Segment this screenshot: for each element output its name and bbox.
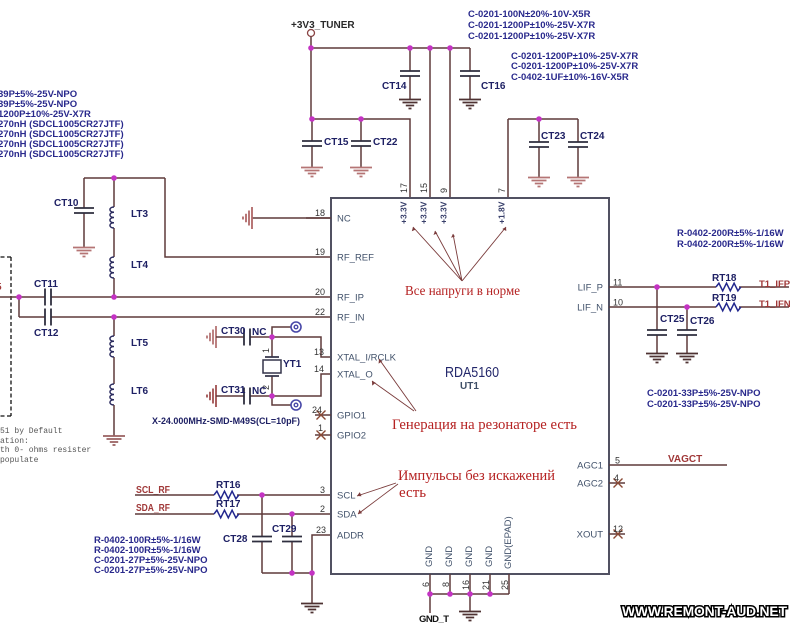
svg-text:+3.3V: +3.3V	[399, 201, 409, 224]
wire RF_IN	[19, 297, 331, 317]
wire XTAL_O node	[272, 374, 331, 405]
svg-text:LT4: LT4	[131, 260, 148, 271]
svg-text:CT10: CT10	[54, 198, 79, 209]
svg-text:CT25: CT25	[660, 314, 685, 325]
svg-text:CT24: CT24	[580, 131, 605, 142]
svg-text:CT16: CT16	[481, 81, 506, 92]
junction gnd bus pin8	[447, 591, 453, 597]
capacitor CT10	[83, 178, 85, 247]
svg-text:23: 23	[316, 525, 326, 535]
svg-text:VAGCT: VAGCT	[668, 454, 702, 465]
wire pin8 drop	[449, 574, 451, 594]
junction LT4/LT5 on RF_IP	[111, 294, 117, 300]
svg-text:RT18: RT18	[712, 273, 737, 284]
svg-text:GND(EPAD): GND(EPAD)	[503, 516, 514, 569]
svg-text:GPIO2: GPIO2	[337, 431, 366, 442]
junction gnd bus pin16	[467, 591, 473, 597]
svg-text:RT16: RT16	[216, 480, 241, 491]
wire pin9	[449, 48, 451, 198]
capacitor CT30	[216, 336, 272, 338]
svg-text:3: 3	[320, 485, 325, 495]
svg-text:+3.3V: +3.3V	[419, 201, 429, 224]
svg-text:T1_IFN: T1_IFN	[759, 299, 791, 310]
leader lines to +3.3V pins	[413, 227, 506, 281]
SECTION: red annotations	[357, 227, 577, 514]
junction CT25/LIF_P	[654, 284, 660, 290]
IC UT1 RDA5160 body	[331, 198, 609, 574]
svg-text:CT12: CT12	[34, 328, 59, 339]
junction CT29 bottom	[289, 570, 295, 576]
junction XTAL_O node	[269, 393, 275, 399]
ground CT14	[399, 100, 421, 109]
svg-text:R-0402-200R±5%-1/16W: R-0402-200R±5%-1/16W	[677, 228, 784, 239]
svg-text:ADDR: ADDR	[337, 531, 364, 542]
svg-text:XTAL_O: XTAL_O	[337, 370, 373, 381]
wire gnd bus	[430, 593, 509, 595]
capacitor CT28	[261, 495, 263, 573]
junction CT23 branch	[536, 116, 542, 122]
junction RF input	[16, 294, 22, 300]
svg-text:SCL: SCL	[337, 491, 355, 502]
SECTION: bottom gnd	[419, 574, 509, 625]
svg-text:C-0201-1200P±10%-25V-X7R: C-0201-1200P±10%-25V-X7R	[468, 31, 595, 42]
junction CT26/LIF_N	[684, 304, 690, 310]
svg-text:17: 17	[399, 183, 409, 193]
svg-text:2: 2	[320, 504, 325, 514]
ground pin18 NC sideways	[252, 217, 331, 219]
svg-text:ation:: ation:	[0, 437, 29, 446]
svg-text:WWW.REMONT-AUD.NET: WWW.REMONT-AUD.NET	[622, 603, 787, 619]
ground CT22	[350, 168, 372, 177]
svg-text:CT15: CT15	[324, 137, 349, 148]
svg-text:C-0201-100N±20%-10V-X5R: C-0201-100N±20%-10V-X5R	[468, 9, 591, 20]
svg-text:12: 12	[613, 524, 623, 534]
svg-text:XTAL_I/RCLK: XTAL_I/RCLK	[337, 353, 397, 364]
svg-text:X-24.000MHz-SMD-M49S(CL=10pF): X-24.000MHz-SMD-M49S(CL=10pF)	[152, 416, 300, 427]
svg-text:C-0201-1200P±10%-25V-X7R: C-0201-1200P±10%-25V-X7R	[511, 61, 638, 72]
junction CT14 branch	[407, 45, 413, 51]
svg-text:RDA5160: RDA5160	[445, 365, 499, 381]
svg-text:4: 4	[614, 473, 619, 483]
inductor LT6	[110, 384, 114, 405]
pin 12 stub XOUT	[609, 533, 625, 535]
wire AGC1 / VAGCT	[609, 464, 727, 466]
capacitor CT22	[360, 119, 362, 167]
wire SDA	[135, 513, 331, 515]
capacitor CT29	[291, 514, 293, 573]
svg-text:14: 14	[314, 364, 324, 374]
svg-text:RF_REF: RF_REF	[337, 253, 374, 264]
resistor RT16	[214, 491, 239, 499]
connector dashed box	[0, 257, 11, 416]
ground CT16	[459, 100, 481, 109]
svg-text:C-0201-33P±5%-25V-NPO: C-0201-33P±5%-25V-NPO	[647, 388, 760, 399]
svg-text:LIF_N: LIF_N	[577, 303, 603, 314]
svg-text:RT17: RT17	[216, 499, 241, 510]
svg-text:C-0201-33P±5%-25V-NPO: C-0201-33P±5%-25V-NPO	[647, 399, 760, 410]
capacitor CT11	[45, 289, 51, 306]
svg-text:11: 11	[613, 278, 622, 288]
wire pin6 drop	[429, 574, 431, 594]
svg-text:10: 10	[613, 298, 623, 308]
svg-text:LT3: LT3	[131, 209, 148, 220]
svg-text:T1_IFP: T1_IFP	[759, 279, 791, 290]
junction SCL/CT28	[259, 492, 265, 498]
wire SCL	[135, 494, 331, 496]
svg-text:R-0402-200R±5%-1/16W: R-0402-200R±5%-1/16W	[677, 239, 784, 250]
svg-text:+3.3V: +3.3V	[439, 201, 449, 224]
inductor LT5	[113, 317, 115, 384]
junction LT3 top	[111, 175, 117, 181]
svg-text:CT31: CT31	[221, 385, 246, 396]
junction pin9 branch	[447, 45, 453, 51]
ground CT26	[676, 354, 698, 363]
ground CT15	[301, 168, 323, 177]
svg-text:GND: GND	[484, 546, 495, 567]
svg-text:YT1: YT1	[283, 359, 302, 370]
svg-text:13: 13	[314, 347, 324, 357]
ground ADDR	[301, 604, 323, 613]
wire LT3 top rail	[84, 177, 165, 179]
wire CT15/CT22 rail	[311, 119, 410, 198]
svg-text:C-0402-1UF±10%-16V-X5R: C-0402-1UF±10%-16V-X5R	[511, 72, 629, 83]
inductor LT4	[113, 278, 115, 297]
pin 18 stub NC	[306, 217, 331, 219]
junction +3V3 rail left	[308, 45, 314, 51]
capacitor CT16	[469, 48, 471, 99]
svg-text:UT1: UT1	[460, 381, 479, 392]
svg-text:RT19: RT19	[712, 293, 737, 304]
junction pin15 branch	[427, 45, 433, 51]
terminal top	[291, 322, 301, 332]
svg-text:Все напруги в норме: Все напруги в норме	[405, 283, 520, 298]
ground pin16	[469, 594, 471, 611]
svg-text:1: 1	[261, 348, 271, 353]
SECTION: watermark	[622, 603, 787, 619]
wire ADDR	[312, 535, 331, 603]
resistor RT18	[716, 283, 741, 291]
wire CT23/CT24 rail	[508, 119, 578, 198]
svg-text:22: 22	[315, 307, 325, 317]
svg-text:Генерация на резонаторе есть: Генерация на резонаторе есть	[392, 417, 577, 433]
svg-text:LIF_P: LIF_P	[578, 283, 603, 294]
SECTION: crystal	[152, 322, 331, 427]
svg-text:CT22: CT22	[373, 137, 398, 148]
capacitor CT23	[538, 119, 540, 177]
wire gnd bus	[262, 572, 312, 574]
junction gnd bus pin6	[427, 591, 433, 597]
svg-text:9: 9	[439, 188, 449, 193]
svg-text:5: 5	[615, 456, 620, 466]
svg-text:AGC1: AGC1	[577, 461, 603, 472]
terminal bottom	[291, 400, 301, 410]
ground LT6	[103, 436, 125, 445]
wire pin25 drop	[508, 574, 510, 594]
ground CT24	[567, 178, 589, 187]
wire LIF_N	[609, 306, 789, 308]
wire top rail	[311, 47, 470, 49]
svg-text:RF_IN: RF_IN	[337, 313, 365, 324]
svg-text:CT26: CT26	[690, 316, 715, 327]
wire LIF_P	[609, 286, 789, 288]
SECTION: power rail	[291, 20, 605, 198]
junction CT15 rail	[309, 116, 315, 122]
svg-text:51 by Default: 51 by Default	[0, 427, 62, 436]
ground CT31 sideways	[207, 385, 216, 407]
svg-text:GND: GND	[464, 546, 475, 567]
svg-text:+3V3_TUNER: +3V3_TUNER	[291, 20, 355, 31]
svg-text:GND_T: GND_T	[419, 614, 449, 625]
wire pin16 drop	[469, 574, 471, 594]
leader lines to XTAL pins	[372, 359, 416, 411]
capacitor CT12	[45, 309, 51, 326]
ground CT23	[528, 178, 550, 187]
leader lines to SCL/SDA pins	[357, 483, 398, 514]
resistor RT19	[716, 303, 741, 311]
capacitor CT15	[311, 119, 313, 167]
svg-text:SDA: SDA	[337, 510, 357, 521]
SECTION: i2c	[135, 480, 331, 613]
SECTION: right side	[609, 273, 791, 465]
svg-text:XOUT: XOUT	[577, 530, 604, 541]
svg-text:CT30: CT30	[221, 326, 246, 337]
svg-text:C-0201-1200P±10%-25V-X7R: C-0201-1200P±10%-25V-X7R	[468, 20, 595, 31]
capacitor CT24	[577, 119, 579, 177]
svg-text:19: 19	[315, 247, 325, 257]
capacitor CT31	[216, 395, 272, 397]
svg-text:NC: NC	[337, 214, 351, 225]
svg-text:CT11: CT11	[34, 279, 58, 290]
svg-text:NC: NC	[252, 386, 266, 397]
svg-text:CT28: CT28	[223, 534, 248, 545]
svg-text:24: 24	[312, 405, 322, 415]
svg-text:Импульсы без искажений: Импульсы без искажений	[398, 468, 555, 484]
capacitor CT14	[409, 48, 411, 99]
svg-text:RF_IP: RF_IP	[337, 293, 364, 304]
inductor LT3	[113, 178, 115, 257]
SECTION: IC	[306, 183, 625, 590]
svg-text:th 0- ohms resister: th 0- ohms resister	[0, 446, 91, 455]
svg-text:270nH (SDCL1005CR27JTF): 270nH (SDCL1005CR27JTF)	[0, 149, 124, 160]
junction ADDR bottom	[309, 570, 315, 576]
svg-text:populate: populate	[0, 456, 39, 465]
svg-text:20: 20	[315, 287, 325, 297]
svg-text:LT5: LT5	[131, 338, 148, 349]
pin 24 stub GPIO1	[315, 414, 331, 416]
svg-text:1: 1	[318, 423, 323, 433]
junction SDA/CT29	[289, 511, 295, 517]
svg-text:C-0201-27P±5%-25V-NPO: C-0201-27P±5%-25V-NPO	[94, 565, 207, 576]
resistor RT17	[214, 510, 239, 518]
ground CT30 sideways	[207, 326, 216, 348]
wire RF_REF	[165, 178, 331, 257]
capacitor CT25	[656, 287, 658, 353]
svg-text:+1.8V: +1.8V	[497, 201, 507, 224]
svg-text:GND: GND	[424, 546, 435, 567]
wire pin15	[429, 48, 431, 198]
svg-text:GPIO1: GPIO1	[337, 411, 366, 422]
svg-text:CT14: CT14	[382, 81, 407, 92]
svg-text:CT23: CT23	[541, 131, 566, 142]
junction LT5 on RF_IN	[111, 314, 117, 320]
SECTION: left RF network	[0, 175, 331, 445]
junction gnd bus pin21	[487, 591, 493, 597]
pin 1 stub GPIO2	[315, 434, 331, 436]
junction XTAL_I node	[269, 334, 275, 340]
svg-text:GND: GND	[444, 546, 455, 567]
ground CT10	[73, 248, 95, 257]
wire +3V3 vertical	[310, 37, 312, 120]
wire RF_IP	[0, 296, 331, 298]
wire GND_T drop	[429, 594, 431, 613]
pin 4 stub AGC2	[609, 482, 625, 484]
svg-text:LT6: LT6	[131, 386, 148, 397]
junction CT22 branch	[358, 116, 364, 122]
svg-text:SDA_RF: SDA_RF	[136, 503, 170, 514]
svg-text:15: 15	[419, 183, 429, 193]
svg-text:18: 18	[315, 208, 325, 218]
svg-text:7: 7	[497, 188, 507, 193]
wire XTAL_I node	[272, 327, 331, 357]
svg-text:NC: NC	[252, 327, 266, 338]
capacitor CT26	[686, 307, 688, 353]
svg-text:AGC2: AGC2	[577, 479, 603, 490]
svg-text:CT29: CT29	[272, 524, 297, 535]
wire pin21 drop	[489, 574, 491, 594]
ground CT25	[646, 354, 668, 363]
crystal YT1	[271, 337, 273, 396]
svg-text:есть: есть	[399, 485, 426, 501]
